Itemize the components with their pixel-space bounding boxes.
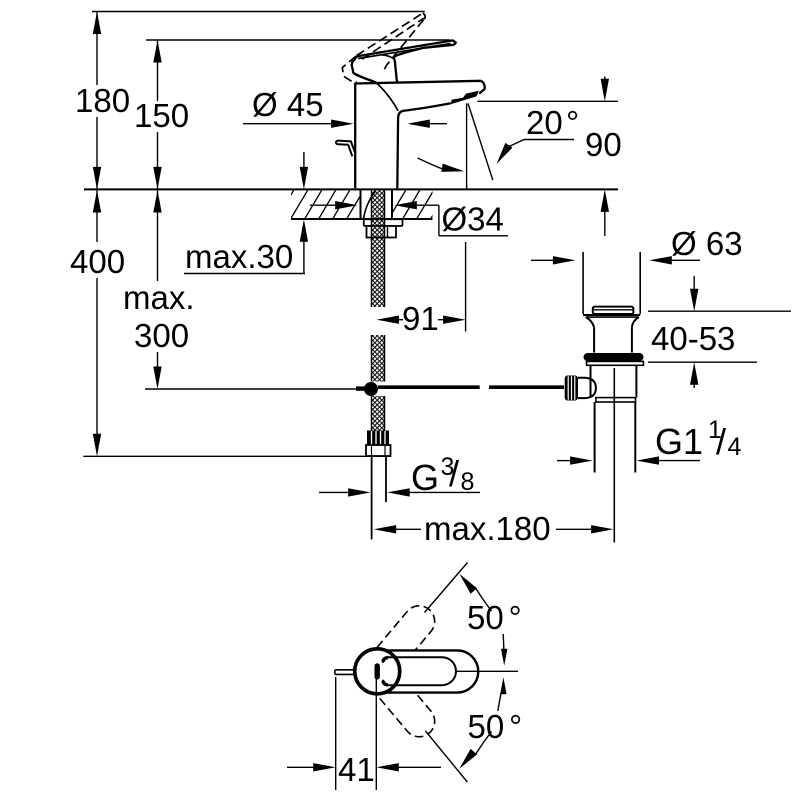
20 degree swing arc with arrow (418, 158, 445, 169)
dimension 90 arrows (604, 77, 606, 82)
braided supply hose lower segment (372, 396, 385, 431)
top view 50 degree lower slant line (426, 731, 468, 782)
svg-text:90: 90 (585, 126, 622, 163)
svg-text:max.30: max.30 (185, 238, 293, 275)
horseshoe washer (364, 219, 403, 226)
top view lower swing arc with arrow (476, 732, 492, 755)
top view handle swung up 50 degrees (dashed) (367, 599, 441, 679)
dimension G1 1/4 arrows (557, 460, 571, 462)
dimension max.30 arrows at countertop (303, 152, 305, 170)
svg-text:91: 91 (402, 300, 439, 337)
countertop hatching left of shank (276, 188, 463, 220)
top view handle inner loop outline (383, 657, 456, 685)
top view faucet body circle (thick, white filled) (355, 649, 400, 694)
label diameter 34 with leader (438, 205, 440, 236)
svg-text:8: 8 (461, 468, 475, 496)
dimension 180 vertical line with arrows (96, 12, 98, 190)
mounting nut (367, 226, 397, 238)
top view handle swung down 50 degrees (dashed) (367, 663, 441, 743)
dimension line diameter 45 (243, 123, 332, 125)
svg-text:4: 4 (728, 433, 742, 461)
mounting shank outline (360, 190, 362, 219)
lever finger groove line (382, 55, 394, 59)
svg-text:max.180: max.180 (424, 510, 551, 547)
drain seat lip band (587, 361, 644, 365)
svg-text:°: ° (566, 104, 579, 141)
dimension extension line spout outlet level (90) (478, 100, 619, 102)
dimension G3/8 arrows (319, 491, 349, 493)
svg-text:40-53: 40-53 (651, 320, 735, 357)
dimension 40-53 reference lines (648, 310, 791, 312)
extension line below deck (spout reach) (465, 242, 467, 332)
drain neck (593, 327, 595, 352)
drain extension lines up to diameter 63 dimension (582, 252, 584, 314)
svg-text:300: 300 (134, 317, 189, 354)
svg-text:20: 20 (526, 104, 563, 141)
lever handle raised position (dashed) (342, 13, 425, 82)
second flexible hose bend (364, 191, 376, 219)
top view pop-up rod (335, 670, 355, 675)
dimension 150 vertical line with arrows (157, 40, 159, 189)
drain rubber seal o-ring (black) (584, 353, 644, 361)
label 41 (338, 755, 374, 783)
svg-text:50: 50 (468, 708, 505, 745)
dimension diameter 34 arrows at shank (310, 204, 336, 206)
faucet body outline (355, 81, 485, 189)
svg-text:Ø 63: Ø 63 (671, 225, 743, 262)
drain body shoulder band (596, 398, 636, 402)
pop-up rod lever on faucet (336, 141, 355, 157)
dimension extension line (lever height 150) (146, 39, 450, 41)
svg-text:/: / (716, 421, 726, 462)
dimension 91 with arrows (377, 316, 400, 324)
faucet body front crease (376, 83, 398, 111)
aerator outlet (black marks) (451, 91, 479, 104)
braided supply hose middle segment (372, 335, 385, 382)
drain flange top lines (583, 314, 640, 316)
top view outlet mark (black) (375, 666, 380, 677)
20 degree leader line with arrow (507, 140, 524, 148)
dimension extension line top (spout max height 180) (92, 11, 425, 13)
svg-text:G1: G1 (655, 421, 703, 462)
drain flare (trumpet neck) (586, 317, 594, 327)
lever handle fulcrum boot (352, 56, 377, 82)
svg-text:Ø34: Ø34 (442, 201, 504, 238)
dimension 41 extension lines (335, 677, 337, 790)
20 degree slanted stream line (468, 103, 493, 180)
top view center line angle arrows (502, 634, 505, 650)
svg-text:°: ° (509, 708, 522, 745)
dimension max.180 with arrows (374, 525, 397, 533)
top view 50 degree upper slant line (425, 563, 468, 613)
dimension max.300 vertical line with arrows (157, 190, 159, 368)
G3/8 hose connector nut (366, 445, 391, 456)
top view upper swing arc with arrow (476, 588, 492, 611)
svg-text:180: 180 (75, 82, 130, 119)
top view inner loop corner accents (thick) (383, 658, 388, 662)
G3/8 hose connector knurled section (367, 431, 389, 446)
drain tailpiece center line / max.180 extension (613, 368, 615, 543)
svg-text:400: 400 (70, 243, 125, 280)
svg-text:/: / (449, 453, 459, 494)
G3/8 connection tube (371, 456, 373, 539)
svg-text:50: 50 (467, 599, 504, 636)
dimension diameter 63 arrows (531, 259, 554, 261)
dimension 400 vertical line with arrows (96, 190, 98, 434)
svg-text:max.: max. (123, 279, 195, 316)
pop-up rod left segment (356, 386, 366, 390)
svg-text:°: ° (509, 599, 522, 636)
vertical reference line at spout outlet (466, 103, 468, 189)
svg-text:G: G (411, 457, 439, 498)
braided supply hose upper segment (372, 190, 385, 307)
pop-up rod adjustment knurled knob (565, 376, 578, 401)
knob to body connector with rounded face (578, 378, 596, 398)
countertop bottom line (291, 218, 433, 220)
pop-up rod joint ball (364, 382, 378, 396)
svg-text:41: 41 (338, 751, 375, 788)
drain valve body (590, 365, 592, 397)
drain tailpiece (594, 402, 596, 473)
dimension 40-53 arrows (693, 276, 695, 292)
reference line hose end level (400 below deck) (83, 455, 391, 457)
pop-up rod reference line (max.300 bottom) (145, 388, 356, 390)
countertop top surface line (84, 188, 618, 190)
lever boot inner line (355, 75, 372, 82)
dimension 41 arrows (287, 766, 315, 768)
svg-text:150: 150 (134, 97, 189, 134)
top view handle outer outline (white filled) (381, 650, 478, 692)
pop-up horizontal rod (378, 385, 480, 389)
lever handle solid outline (357, 40, 456, 82)
drain pop-up plug cap (593, 307, 634, 314)
lever top edge inner line (358, 44, 450, 59)
top view horizontal center line (455, 670, 518, 672)
countertop hatching right of shank (276, 188, 463, 220)
svg-text:Ø 45: Ø 45 (252, 86, 324, 123)
